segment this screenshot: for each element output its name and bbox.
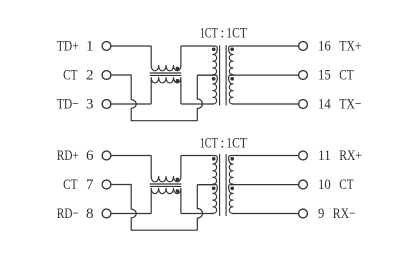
wire pin2 jog down and under, with two wire hops — [111, 75, 203, 121]
transformer T4 secondary lower half winding — [229, 185, 235, 214]
choke T1 core line 2 — [150, 74, 182, 76]
svg-text::: : — [220, 136, 224, 152]
phase dot choke T3 top winding — [176, 178, 180, 182]
pin 1 terminal circle — [102, 42, 111, 51]
pin 7 terminal circle — [102, 180, 111, 189]
pin 8 terminal circle — [102, 209, 111, 218]
pin 6 terminal circle — [102, 151, 111, 160]
transformer T2 primary upper half winding — [197, 46, 217, 75]
pin 2 terminal circle — [102, 71, 111, 80]
phase dot transformer T4 primary lower — [212, 186, 216, 190]
wire pin1 to choke T1 top winding — [111, 45, 151, 47]
svg-text:RD−: RD− — [57, 206, 79, 222]
svg-text:15: 15 — [318, 67, 331, 83]
pin 11 terminal circle — [299, 151, 308, 160]
transformer T4 core line right — [225, 154, 227, 216]
choke T1 bottom winding — [151, 78, 181, 104]
svg-text:RX−: RX− — [333, 206, 356, 222]
phase dot choke T1 top winding — [176, 67, 180, 71]
choke T3 core line 1 — [150, 183, 182, 185]
phase dot transformer T4 secondary lower — [230, 186, 234, 190]
svg-text:1CT: 1CT — [226, 136, 247, 152]
transformer T4 secondary upper half winding — [229, 156, 235, 185]
wire choke T3 bottom winding to transformer T4 primary bottom — [181, 213, 213, 215]
wire center-tap to transformer T2 primary CT — [197, 74, 212, 76]
pin 3 terminal circle — [102, 100, 111, 109]
transformer T2 secondary upper half winding — [229, 46, 235, 75]
wire transformer T4 secondary top to pin11 — [233, 155, 299, 157]
wire transformer T2 secondary top to pin16 — [233, 45, 299, 47]
wire transformer T2 secondary CT to pin15 — [234, 74, 299, 76]
wire choke T1 top winding to transformer T2 primary — [181, 45, 213, 47]
svg-text:2: 2 — [86, 67, 94, 83]
wire center-tap to transformer T4 primary CT — [197, 184, 212, 186]
transformer T2 core line left — [219, 45, 221, 105]
svg-text:9: 9 — [318, 206, 324, 222]
wire transformer T4 secondary CT to pin10 — [234, 184, 299, 186]
wire choke T3 top winding to transformer T4 primary — [181, 155, 213, 157]
pin 9 terminal circle — [299, 209, 308, 218]
svg-text:TX−: TX− — [339, 96, 361, 112]
transformer T2 core line right — [225, 45, 227, 105]
pin 10 terminal circle — [299, 180, 308, 189]
wire pin6 to choke T3 top winding — [111, 155, 151, 157]
svg-text:8: 8 — [86, 206, 94, 222]
svg-text:TD+: TD+ — [57, 38, 79, 54]
svg-text:1CT: 1CT — [226, 25, 247, 41]
transformer T4 primary upper half winding — [197, 156, 217, 185]
svg-text:1CT: 1CT — [200, 136, 218, 152]
svg-text:CT: CT — [339, 177, 353, 193]
svg-text:7: 7 — [86, 177, 94, 193]
phase dot transformer T4 secondary upper — [230, 157, 234, 161]
phase dot transformer T4 primary upper — [212, 157, 216, 161]
svg-text:CT: CT — [63, 177, 77, 193]
phase dot transformer T2 secondary lower — [230, 77, 234, 81]
svg-text:3: 3 — [86, 96, 94, 112]
choke T1 top winding — [151, 46, 181, 71]
phase dot choke T3 bottom winding — [176, 189, 180, 193]
svg-text:TX+: TX+ — [339, 38, 361, 54]
wire pin3 to choke T1 bottom winding — [111, 103, 151, 105]
svg-text:CT: CT — [63, 67, 77, 83]
svg-text::: : — [220, 25, 224, 41]
wire pin8 to choke T3 bottom winding — [111, 213, 151, 215]
wire pin7 jog down and under, with two wire hops — [111, 185, 203, 231]
svg-text:RD+: RD+ — [57, 148, 79, 164]
svg-text:10: 10 — [318, 177, 331, 193]
choke T3 core line 2 — [150, 185, 182, 187]
svg-text:TD−: TD− — [57, 96, 79, 112]
transformer T4 core line left — [219, 154, 221, 216]
transformer T2 primary lower half winding — [211, 75, 217, 104]
pin 16 terminal circle — [299, 42, 308, 51]
wire transformer T2 secondary bottom to pin14 — [233, 103, 299, 105]
wire transformer T4 secondary bottom to pin9 — [233, 213, 299, 215]
svg-text:11: 11 — [318, 148, 331, 164]
svg-text:1CT: 1CT — [200, 25, 218, 41]
transformer T2 secondary lower half winding — [229, 75, 235, 104]
transformer T4 primary lower half winding — [211, 185, 217, 214]
choke T1 core line 1 — [150, 72, 182, 74]
choke T3 bottom winding — [151, 188, 181, 213]
pin 14 terminal circle — [299, 100, 308, 109]
svg-text:CT: CT — [339, 67, 353, 83]
phase dot transformer T2 primary lower — [212, 77, 216, 81]
svg-text:16: 16 — [318, 38, 331, 54]
phase dot transformer T2 primary upper — [212, 47, 216, 51]
svg-text:RX+: RX+ — [339, 148, 362, 164]
phase dot transformer T2 secondary upper — [230, 47, 234, 51]
choke T3 top winding — [151, 156, 181, 182]
phase dot choke T1 bottom winding — [176, 79, 180, 83]
pin 15 terminal circle — [299, 71, 308, 80]
svg-text:6: 6 — [86, 148, 94, 164]
wire choke T1 bottom winding to transformer T2 primary bottom — [181, 103, 213, 105]
svg-text:14: 14 — [318, 96, 331, 112]
svg-text:1: 1 — [86, 38, 94, 54]
